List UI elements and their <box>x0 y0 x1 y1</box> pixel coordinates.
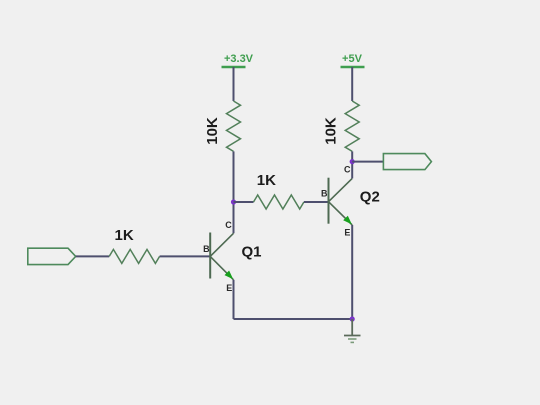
power +3.3V <box>222 53 254 67</box>
collector diagonal <box>210 233 233 256</box>
resistor R2 10K (pull-up to +5V) <box>323 101 360 151</box>
svg-text:C: C <box>344 165 351 175</box>
svg-text:1K: 1K <box>115 227 134 244</box>
resistor R3 1K (Q1 collector to Q2 base) <box>254 172 304 209</box>
svg-text:C: C <box>225 220 232 230</box>
svg-text:B: B <box>321 189 328 199</box>
svg-text:Q2: Q2 <box>360 189 380 206</box>
bottom wire Q1 emitter to ground junction <box>234 318 353 320</box>
wire node A to R3 left <box>234 201 254 203</box>
svg-text:10K: 10K <box>204 117 221 145</box>
svg-text:Q1: Q1 <box>241 244 261 261</box>
svg-text:E: E <box>344 228 350 238</box>
wire R3 right to Q2 base <box>304 201 329 203</box>
svg-text:1K: 1K <box>257 172 276 189</box>
emitter arrow <box>343 216 352 225</box>
base bar <box>209 233 211 279</box>
base bar <box>328 178 330 224</box>
svg-text:10K: 10K <box>323 117 340 145</box>
wire Q2 emitter down <box>351 225 353 319</box>
wire port IN to R4 left <box>76 255 110 257</box>
wire +5V rail to R2 top <box>351 67 353 101</box>
emitter diagonal <box>329 202 353 225</box>
wire Q1 emitter down <box>233 280 235 319</box>
collector diagonal <box>329 178 353 201</box>
junction node OUT (Q2 collector) <box>350 159 355 164</box>
wire R1 bottom to Q1 collector (through node A) <box>233 151 235 233</box>
transistor Q2 (NPN) <box>321 165 380 238</box>
svg-text:+3.3V: +3.3V <box>224 53 254 65</box>
port IN (input flag) <box>28 248 76 264</box>
svg-text:+5V: +5V <box>342 53 363 65</box>
junction node A (Q1 collector / R3 left) <box>231 199 236 204</box>
power +5V <box>341 53 365 67</box>
emitter arrow <box>225 271 234 280</box>
wire R2 bottom to Q2 collector junction <box>351 151 353 178</box>
wire R4 right to Q1 base <box>160 255 211 257</box>
ground junction node <box>350 316 355 321</box>
resistor R1 10K (pull-up to +3.3V) <box>204 101 241 151</box>
transistor Q1 (NPN) <box>203 220 261 293</box>
emitter diagonal <box>210 256 233 279</box>
svg-text:E: E <box>226 283 232 293</box>
wire junction to port OUT <box>352 161 383 163</box>
svg-text:B: B <box>203 244 210 254</box>
wire +3.3V rail to R1 top <box>233 67 235 101</box>
port OUT (output flag) <box>383 154 431 170</box>
resistor R4 1K (input to Q1 base) <box>109 227 159 263</box>
ground <box>344 319 361 342</box>
